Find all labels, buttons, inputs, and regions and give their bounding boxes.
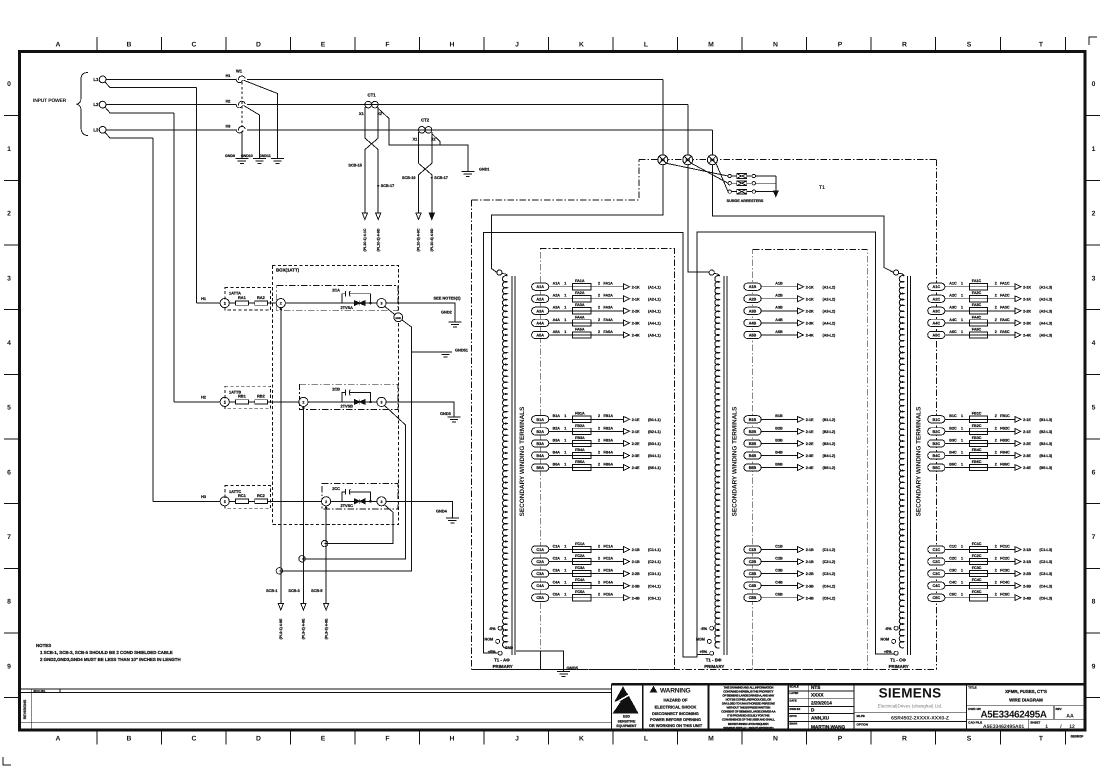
svg-text:FB2C: FB2C [972, 424, 982, 428]
svg-text:L: L [644, 735, 648, 742]
svg-text:B2C: B2C [949, 426, 957, 430]
svg-text:FB2A: FB2A [603, 426, 613, 430]
svg-text:TITLE: TITLE [968, 686, 976, 690]
svg-text:(C4-L2): (C4-L2) [823, 584, 836, 588]
svg-text:SCB-17: SCB-17 [434, 176, 448, 180]
svg-text:GND10: GND10 [241, 154, 253, 158]
svg-text:2-1B: 2-1B [806, 560, 814, 564]
svg-text:(A4-L3): (A4-L3) [1039, 321, 1052, 325]
svg-text:2TVSB: 2TVSB [340, 404, 353, 409]
svg-text:1: 1 [961, 282, 963, 286]
svg-text:(B2-L1): (B2-L1) [648, 430, 661, 434]
svg-text:C4B: C4B [775, 581, 783, 585]
svg-text:H2: H2 [201, 396, 206, 400]
svg-text:FA3A: FA3A [603, 306, 613, 310]
svg-text:(B3-L2): (B3-L2) [823, 442, 836, 446]
svg-text:8: 8 [7, 599, 11, 606]
svg-text:B2A: B2A [553, 426, 561, 430]
svg-text:A: A [56, 42, 61, 49]
svg-text:2-1B: 2-1B [632, 548, 640, 552]
svg-text:FB5A: FB5A [603, 462, 613, 466]
svg-text:FB4A: FB4A [575, 448, 585, 452]
svg-text:PRIMARY: PRIMARY [704, 664, 724, 669]
svg-text:WIRE DIAGRAM: WIRE DIAGRAM [1009, 698, 1043, 703]
svg-text:REV: REV [1056, 707, 1062, 711]
svg-text:0: 0 [1092, 81, 1096, 88]
svg-text:1: 1 [961, 330, 963, 334]
svg-text:FC3C: FC3C [972, 566, 982, 570]
svg-text:A1A: A1A [553, 282, 561, 286]
svg-text:2-1E: 2-1E [806, 430, 814, 434]
svg-text:(PL10-3) 4-9C: (PL10-3) 4-9C [417, 228, 421, 251]
svg-text:NTS: NTS [811, 685, 820, 690]
svg-text:RB2: RB2 [257, 394, 266, 399]
svg-text:2-2K: 2-2K [806, 309, 814, 313]
svg-text:A3B: A3B [775, 306, 783, 310]
svg-text:A2B: A2B [749, 297, 757, 301]
svg-text:FA4C: FA4C [972, 315, 982, 319]
svg-text:1: 1 [961, 318, 963, 322]
svg-text:A2B: A2B [775, 294, 783, 298]
svg-text:H3: H3 [201, 495, 206, 499]
svg-text:1: 1 [564, 462, 566, 466]
svg-text:2-2B: 2-2B [806, 572, 814, 576]
svg-text:2: 2 [598, 330, 600, 334]
svg-text:FB3C: FB3C [1000, 438, 1010, 442]
svg-text:(A4-L1): (A4-L1) [648, 321, 661, 325]
svg-text:K: K [579, 42, 584, 49]
svg-text:2-3E: 2-3E [1023, 454, 1031, 458]
svg-text:B3C: B3C [932, 442, 940, 446]
svg-text:5: 5 [7, 405, 11, 412]
svg-text:PRIMARY: PRIMARY [889, 664, 909, 669]
svg-text:3: 3 [7, 275, 11, 282]
svg-text:(PL10-2) 4-9D: (PL10-2) 4-9D [376, 228, 380, 251]
svg-text:FA1C: FA1C [972, 279, 982, 283]
svg-text:C2C: C2C [932, 560, 940, 564]
svg-text:DISCONNECT INCOMING: DISCONNECT INCOMING [652, 711, 699, 716]
svg-text:ELECTRICAL SHOCK: ELECTRICAL SHOCK [655, 704, 697, 709]
svg-text:1: 1 [564, 414, 566, 418]
svg-text:9: 9 [7, 663, 11, 670]
svg-text:FA4C: FA4C [1000, 318, 1010, 322]
svg-text:2: 2 [995, 438, 997, 442]
svg-text:SCALE: SCALE [790, 686, 799, 689]
svg-text:XXXX: XXXX [811, 692, 824, 697]
svg-text:2: 2 [598, 581, 600, 585]
svg-text:(B3-L3): (B3-L3) [1039, 442, 1052, 446]
svg-text:2-2E: 2-2E [1023, 442, 1031, 446]
svg-text:FA5A: FA5A [575, 327, 585, 331]
svg-text:1: 1 [961, 450, 963, 454]
svg-text:A5C: A5C [932, 333, 940, 337]
svg-text:A5A: A5A [553, 330, 561, 334]
svg-text:2-1K: 2-1K [632, 297, 640, 301]
svg-text:2-1E: 2-1E [1023, 418, 1031, 422]
svg-text:A2C: A2C [949, 294, 957, 298]
svg-text:E: E [321, 735, 326, 742]
svg-text:-5%: -5% [489, 627, 496, 631]
svg-text:2: 2 [995, 330, 997, 334]
svg-text:E: E [321, 42, 326, 49]
svg-text:SURGE ARRESTERS: SURGE ARRESTERS [727, 199, 764, 203]
svg-text:A2C: A2C [932, 297, 940, 301]
svg-text:2-2K: 2-2K [632, 309, 640, 313]
svg-text:2-4B: 2-4B [1023, 596, 1031, 600]
svg-text:FC4C: FC4C [972, 578, 982, 582]
svg-text:3: 3 [381, 401, 383, 405]
svg-text:A4A: A4A [536, 321, 544, 325]
svg-text:FB5C: FB5C [1000, 462, 1010, 466]
svg-text:1: 1 [564, 282, 566, 286]
svg-text:FC1A: FC1A [575, 542, 585, 546]
svg-text:2: 2 [995, 282, 997, 286]
svg-text:2-1E: 2-1E [632, 418, 640, 422]
svg-text:2: 2 [598, 544, 600, 548]
svg-text:(C2-L1): (C2-L1) [648, 560, 661, 564]
svg-text:2-4K: 2-4K [632, 334, 640, 338]
svg-text:B5B: B5B [749, 466, 757, 470]
svg-text:FA2A: FA2A [575, 291, 585, 295]
svg-text:C4C: C4C [932, 584, 940, 588]
svg-text:H1: H1 [226, 74, 231, 78]
svg-text:C3A: C3A [536, 572, 544, 576]
svg-text:2: 2 [598, 450, 600, 454]
svg-text:GND5: GND5 [567, 665, 579, 670]
svg-text:B1C: B1C [932, 418, 940, 422]
svg-text:B2C: B2C [932, 430, 940, 434]
svg-text:K: K [579, 735, 584, 742]
svg-text:(A4-L2): (A4-L2) [823, 321, 836, 325]
svg-text:A5C: A5C [949, 330, 957, 334]
svg-text:C4B: C4B [749, 584, 757, 588]
svg-text:C4A: C4A [536, 584, 544, 588]
svg-text:GND2: GND2 [441, 310, 453, 315]
svg-text:PRIMARY: PRIMARY [493, 664, 513, 669]
svg-text:B1C: B1C [949, 414, 957, 418]
svg-text:2CA: 2CA [332, 288, 340, 293]
svg-text:1: 1 [961, 306, 963, 310]
svg-text:RA2: RA2 [257, 295, 266, 300]
svg-text:(PL9-1) 4-9E: (PL9-1) 4-9E [279, 618, 283, 639]
svg-text:WARNING: WARNING [660, 687, 691, 694]
svg-text:AA: AA [1066, 713, 1074, 719]
svg-text:(B4-L3): (B4-L3) [1039, 454, 1052, 458]
svg-text:A2A: A2A [553, 294, 561, 298]
svg-text:B4A: B4A [553, 450, 561, 454]
svg-text:2-2B: 2-2B [632, 572, 640, 576]
svg-text:H2: H2 [686, 158, 690, 162]
svg-text:(C5-L2): (C5-L2) [823, 596, 836, 600]
svg-text:A1B: A1B [749, 285, 757, 289]
svg-text:2-1K: 2-1K [632, 285, 640, 289]
svg-text:FB5A: FB5A [575, 460, 585, 464]
svg-text:FC3A: FC3A [603, 569, 613, 573]
svg-text:ENGR: ENGR [790, 723, 798, 726]
svg-text:1: 1 [564, 438, 566, 442]
svg-text:2-3K: 2-3K [632, 321, 640, 325]
svg-text:FB5C: FB5C [972, 460, 982, 464]
svg-text:(B4-L1): (B4-L1) [648, 454, 661, 458]
svg-text:-5%: -5% [885, 627, 892, 631]
svg-text:RB1: RB1 [238, 394, 247, 399]
svg-text:1: 1 [961, 414, 963, 418]
svg-text:EQUIPMENT: EQUIPMENT [616, 724, 637, 728]
svg-text:A5B: A5B [749, 333, 757, 337]
svg-text:XFMR, FUSES, CT'S: XFMR, FUSES, CT'S [1005, 689, 1047, 694]
svg-text:GND4: GND4 [436, 509, 448, 514]
svg-text:FC4C: FC4C [1000, 581, 1010, 585]
svg-text:2-1B: 2-1B [632, 560, 640, 564]
svg-text:A3A: A3A [536, 309, 544, 313]
svg-text:2: 2 [598, 438, 600, 442]
svg-text:P: P [838, 735, 843, 742]
svg-text:2: 2 [995, 294, 997, 298]
svg-text:C2A: C2A [536, 560, 544, 564]
svg-text:2CC: 2CC [332, 486, 340, 491]
svg-text:FB4C: FB4C [972, 448, 982, 452]
svg-text:HAZARD OF: HAZARD OF [663, 698, 688, 703]
svg-text:7: 7 [1092, 534, 1096, 541]
svg-text:GND9: GND9 [225, 154, 235, 158]
svg-text:1: 1 [564, 306, 566, 310]
svg-text:1: 1 [564, 593, 566, 597]
svg-text:1: 1 [564, 544, 566, 548]
svg-text:(B1-L1): (B1-L1) [648, 418, 661, 422]
svg-text:(C1-L3): (C1-L3) [1039, 548, 1052, 552]
svg-text:H3: H3 [226, 125, 231, 129]
svg-text:J: J [515, 42, 519, 49]
svg-text:P: P [838, 42, 843, 49]
svg-text:(A2-L1): (A2-L1) [648, 297, 661, 301]
svg-text:5: 5 [1092, 405, 1096, 412]
svg-text:(C3-L3): (C3-L3) [1039, 572, 1052, 576]
svg-text:2: 2 [598, 426, 600, 430]
svg-text:B1B: B1B [775, 414, 783, 418]
svg-text:0: 0 [7, 81, 11, 88]
svg-text:(A1-L3): (A1-L3) [1039, 285, 1052, 289]
svg-text:GND: GND [395, 317, 401, 320]
svg-text:B4B: B4B [749, 454, 757, 458]
svg-text:SECONDARY WINDING TERMINALS: SECONDARY WINDING TERMINALS [519, 406, 526, 516]
svg-text:A1B: A1B [775, 282, 783, 286]
svg-text:INPUT POWER: INPUT POWER [33, 98, 67, 104]
svg-text:SECONDARY WINDING TERMINALS: SECONDARY WINDING TERMINALS [915, 406, 922, 516]
svg-text:6SR4502-2XXXX-XXX0-Z: 6SR4502-2XXXX-XXX0-Z [891, 715, 949, 721]
svg-text:2-2E: 2-2E [632, 442, 640, 446]
svg-text:A4B: A4B [749, 321, 757, 325]
svg-text:1: 1 [961, 556, 963, 560]
svg-text:FB1C: FB1C [1000, 414, 1010, 418]
svg-text:A3C: A3C [949, 306, 957, 310]
svg-text:1: 1 [7, 146, 11, 153]
svg-text:FC2C: FC2C [1000, 556, 1010, 560]
svg-text:OR WORKING ON THIS UNIT: OR WORKING ON THIS UNIT [649, 723, 703, 728]
svg-text:FA2C: FA2C [972, 291, 982, 295]
svg-text:F: F [385, 42, 389, 49]
svg-text:2-2K: 2-2K [1023, 309, 1031, 313]
svg-text:FA4A: FA4A [575, 315, 585, 319]
svg-text:0B0R0F: 0B0R0F [1071, 735, 1084, 739]
svg-text:2: 2 [598, 593, 600, 597]
svg-text:A3A: A3A [553, 306, 561, 310]
svg-text:L1: L1 [93, 77, 99, 82]
svg-text:(B3-L1): (B3-L1) [648, 442, 661, 446]
svg-text:FC5A: FC5A [603, 593, 613, 597]
svg-text:SHEET: SHEET [1030, 720, 1040, 724]
svg-text:B5A: B5A [553, 462, 561, 466]
svg-text:1: 1 [961, 544, 963, 548]
svg-text:(B5-L2): (B5-L2) [823, 466, 836, 470]
svg-text:N: N [773, 42, 778, 49]
svg-text:2-4K: 2-4K [1023, 334, 1031, 338]
svg-text:C5C: C5C [932, 596, 940, 600]
svg-text:C4C: C4C [949, 581, 957, 585]
svg-text:B5C: B5C [949, 462, 957, 466]
svg-text:FB2A: FB2A [575, 424, 585, 428]
svg-text:NOM: NOM [880, 637, 889, 641]
svg-text:FA4A: FA4A [603, 318, 613, 322]
svg-text:2: 2 [995, 556, 997, 560]
svg-text:FA2C: FA2C [1000, 294, 1010, 298]
svg-text:FA5C: FA5C [1000, 330, 1010, 334]
svg-text:C4A: C4A [553, 581, 561, 585]
svg-text:FC1C: FC1C [1000, 544, 1010, 548]
svg-text:2: 2 [995, 544, 997, 548]
svg-text:SCB-19: SCB-19 [402, 176, 416, 180]
svg-text:S: S [967, 42, 972, 49]
svg-text:2: 2 [280, 302, 282, 306]
svg-text:SEE NOTES(2): SEE NOTES(2) [434, 295, 462, 300]
svg-text:1 SCB-1, SCB-3, SCB-5 SHOULD: 1 SCB-1, SCB-3, SCB-5 SHOULD BE 2 COND S… [40, 650, 173, 655]
svg-text:FC4A: FC4A [575, 578, 585, 582]
svg-text:FA5A: FA5A [603, 330, 613, 334]
svg-text:J: J [515, 735, 519, 742]
svg-text:A2A: A2A [536, 297, 544, 301]
svg-text:A5E33462495A: A5E33462495A [981, 709, 1047, 720]
svg-text:(B1-L3): (B1-L3) [1039, 418, 1052, 422]
svg-text:1: 1 [564, 318, 566, 322]
svg-text:2: 2 [995, 593, 997, 597]
svg-text:B5B: B5B [775, 462, 783, 466]
svg-text:B4C: B4C [949, 450, 957, 454]
svg-text:FA5C: FA5C [972, 327, 982, 331]
svg-text:M: M [708, 42, 714, 49]
svg-text:C5A: C5A [536, 596, 544, 600]
svg-text:2-1E: 2-1E [806, 418, 814, 422]
svg-text:NOM: NOM [484, 637, 493, 641]
svg-text:SCB-17: SCB-17 [381, 184, 395, 188]
svg-text:(C4-L3): (C4-L3) [1039, 584, 1052, 588]
svg-text:1: 1 [564, 569, 566, 573]
svg-text:(B5-L1): (B5-L1) [648, 466, 661, 470]
svg-text:CT1: CT1 [367, 92, 376, 97]
svg-text:C1A: C1A [553, 544, 561, 548]
svg-text:SECONDARY WINDING TERMINALS: SECONDARY WINDING TERMINALS [731, 406, 738, 516]
svg-text:A4C: A4C [949, 318, 957, 322]
svg-text:A5A: A5A [536, 333, 544, 337]
svg-text:FB3A: FB3A [603, 438, 613, 442]
svg-text:1: 1 [961, 569, 963, 573]
svg-text:FA1A: FA1A [603, 282, 613, 286]
svg-text:FA3A: FA3A [575, 303, 585, 307]
svg-text:(A5-L2): (A5-L2) [823, 334, 836, 338]
svg-text:B2B: B2B [749, 430, 757, 434]
svg-text:(B4-L2): (B4-L2) [823, 454, 836, 458]
svg-text:-5%: -5% [700, 627, 707, 631]
svg-text:2: 2 [995, 306, 997, 310]
svg-text:7: 7 [7, 534, 11, 541]
svg-text:B5A: B5A [536, 466, 544, 470]
svg-text:2-3B: 2-3B [806, 584, 814, 588]
svg-text:C1B: C1B [775, 544, 783, 548]
svg-text:2: 2 [995, 569, 997, 573]
svg-text:FB4A: FB4A [603, 450, 613, 454]
svg-text:2CB: 2CB [332, 386, 340, 391]
svg-text:2-3E: 2-3E [806, 454, 814, 458]
svg-text:LAYER: LAYER [790, 692, 799, 695]
svg-text:3: 3 [381, 302, 383, 306]
svg-text:B5C: B5C [932, 466, 940, 470]
svg-text:2-4B: 2-4B [806, 596, 814, 600]
svg-text:B1A: B1A [536, 418, 544, 422]
svg-text:2-1K: 2-1K [806, 297, 814, 301]
svg-text:SENSITIVE: SENSITIVE [618, 719, 636, 723]
svg-text:B3A: B3A [536, 442, 544, 446]
svg-text:2-3K: 2-3K [1023, 321, 1031, 325]
svg-text:3: 3 [1092, 275, 1096, 282]
svg-text:RC1: RC1 [238, 493, 247, 498]
svg-text:ANN,XU: ANN,XU [811, 715, 830, 720]
svg-text:2: 2 [598, 462, 600, 466]
svg-text:C1C: C1C [949, 544, 957, 548]
svg-text:H: H [450, 42, 455, 49]
svg-text:B3B: B3B [775, 438, 783, 442]
svg-text:FC3A: FC3A [575, 566, 585, 570]
svg-text:FC2A: FC2A [603, 556, 613, 560]
svg-text:B3B: B3B [749, 442, 757, 446]
svg-text:6: 6 [1092, 469, 1096, 476]
svg-text:2/20/2014: 2/20/2014 [811, 701, 832, 706]
svg-text:CT2: CT2 [421, 118, 430, 123]
svg-text:2: 2 [598, 569, 600, 573]
svg-text:FB1C: FB1C [972, 412, 982, 416]
svg-text:2: 2 [995, 581, 997, 585]
svg-text:1: 1 [564, 581, 566, 585]
svg-text:T1 - AΦ: T1 - AΦ [494, 657, 510, 662]
svg-text:2: 2 [995, 318, 997, 322]
svg-text:DWN BZ: DWN BZ [790, 708, 801, 711]
svg-text:B3C: B3C [949, 438, 957, 442]
svg-text:(C5-L3): (C5-L3) [1039, 596, 1052, 600]
svg-text:2-2B: 2-2B [1023, 572, 1031, 576]
svg-text:H3: H3 [710, 158, 714, 162]
svg-text:A3B: A3B [749, 309, 757, 313]
svg-text:FA2A: FA2A [603, 294, 613, 298]
svg-text:(A1-L1): (A1-L1) [648, 285, 661, 289]
svg-text:2-3K: 2-3K [806, 321, 814, 325]
svg-text:R: R [902, 735, 907, 742]
svg-text:F: F [385, 735, 389, 742]
svg-text:C3B: C3B [749, 572, 757, 576]
svg-text:FC1C: FC1C [972, 542, 982, 546]
svg-text:+5%: +5% [699, 650, 707, 654]
svg-text:FC2A: FC2A [575, 554, 585, 558]
svg-text:FB3C: FB3C [972, 436, 982, 440]
svg-text:1: 1 [961, 294, 963, 298]
svg-text:C2B: C2B [749, 560, 757, 564]
svg-text:FC2C: FC2C [972, 554, 982, 558]
